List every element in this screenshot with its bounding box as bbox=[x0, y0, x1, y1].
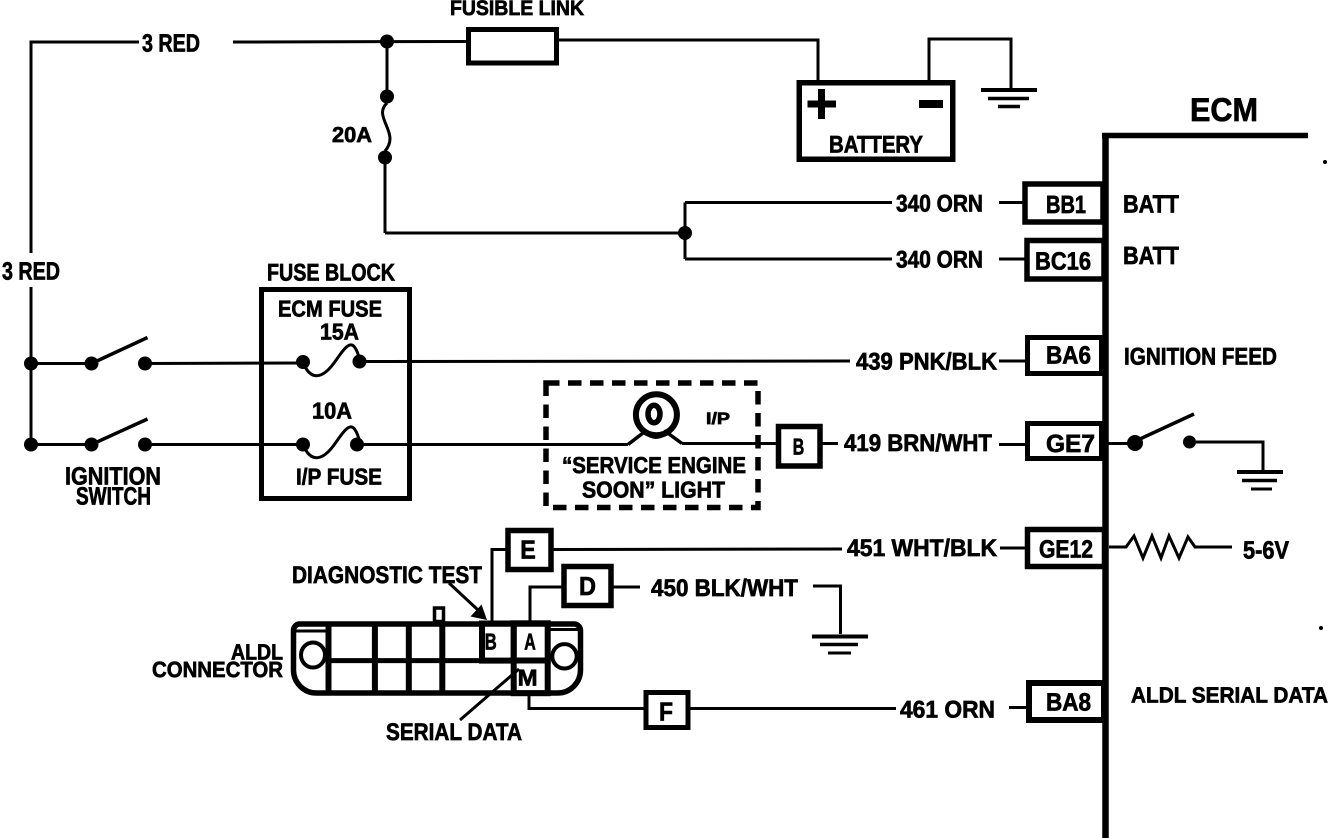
connector BB1 bbox=[1025, 184, 1103, 222]
svg-text:M: M bbox=[518, 664, 538, 690]
svg-text:SWITCH: SWITCH bbox=[76, 483, 151, 511]
svg-text:FUSE BLOCK: FUSE BLOCK bbox=[267, 260, 396, 287]
wire 461 ORN bbox=[688, 707, 896, 710]
svg-text:DIAGNOSTIC TEST: DIAGNOSTIC TEST bbox=[292, 562, 482, 589]
svg-text:340 ORN: 340 ORN bbox=[896, 191, 983, 218]
svg-text:ECM: ECM bbox=[1190, 91, 1258, 128]
svg-text:I/P: I/P bbox=[706, 410, 730, 428]
lamp (service engine soon indicator) bbox=[628, 394, 778, 444]
svg-text:BATTERY: BATTERY bbox=[829, 132, 923, 159]
pin F box bbox=[646, 693, 688, 728]
svg-text:3 RED: 3 RED bbox=[142, 30, 200, 58]
ALDL grid midline bbox=[329, 658, 483, 663]
connector GE12 bbox=[1028, 530, 1105, 567]
svg-text:3 RED: 3 RED bbox=[2, 258, 60, 286]
svg-text:BATT: BATT bbox=[1123, 242, 1179, 270]
ALDL right mount hole bbox=[552, 644, 576, 668]
wire E to ALDL pin B bbox=[492, 550, 508, 623]
ALDL top band right bbox=[549, 628, 578, 631]
svg-text:SOON” LIGHT: SOON” LIGHT bbox=[582, 477, 725, 503]
pin B (lamp connector) bbox=[779, 427, 821, 467]
wire junction riser bbox=[684, 203, 687, 260]
fuse block bbox=[262, 290, 410, 499]
connector BC16 bbox=[1027, 241, 1104, 280]
wire D to 450 bbox=[612, 586, 641, 589]
wire bbox=[999, 360, 1026, 363]
ALDL left mount hole bbox=[301, 643, 325, 668]
svg-text:BB1: BB1 bbox=[1046, 191, 1086, 219]
svg-text:SERIAL DATA: SERIAL DATA bbox=[386, 719, 522, 746]
node junction dot at fusible link tap bbox=[380, 35, 394, 49]
svg-text:BA6: BA6 bbox=[1046, 342, 1091, 370]
wire battery negative to ground bbox=[929, 39, 1011, 88]
svg-text:450 BLK/WHT: 450 BLK/WHT bbox=[651, 575, 798, 602]
fuse I/P 10A bbox=[296, 427, 364, 458]
ALDL top band left bbox=[296, 630, 327, 633]
node junction dot bbox=[678, 226, 692, 240]
fusible link bbox=[469, 30, 557, 64]
svg-text:15A: 15A bbox=[320, 319, 359, 345]
wire 20A fuse to BATT junction bbox=[385, 232, 685, 235]
wire bbox=[1000, 547, 1026, 550]
ground (450 BLK/WHT) bbox=[812, 637, 868, 654]
svg-text:439 PNK/BLK: 439 PNK/BLK bbox=[856, 349, 998, 376]
ground (battery) bbox=[981, 90, 1037, 107]
svg-text:I/P FUSE: I/P FUSE bbox=[296, 464, 382, 490]
svg-text:461 ORN: 461 ORN bbox=[900, 697, 995, 724]
wire bbox=[999, 443, 1026, 446]
wire 451 to GE12 bbox=[551, 548, 842, 552]
svg-text:IGNITION FEED: IGNITION FEED bbox=[1124, 344, 1277, 371]
service engine soon light dashed box bbox=[546, 383, 758, 508]
wire bbox=[822, 442, 838, 445]
svg-text:BA8: BA8 bbox=[1046, 689, 1091, 717]
wire from fusible link to battery bbox=[559, 40, 818, 80]
arrow diagnostic test to pin B bbox=[449, 583, 487, 620]
fuse ECM 15A bbox=[296, 345, 367, 376]
ALDL grid verticals bbox=[329, 627, 443, 691]
ignition switch pole 1 bbox=[24, 338, 303, 371]
svg-text:CONNECTOR: CONNECTOR bbox=[152, 657, 283, 682]
wire 340 ORN to BB1 bbox=[685, 201, 892, 204]
wire 439 to BA6 bbox=[360, 360, 851, 364]
ECM boundary top bbox=[1102, 133, 1308, 139]
svg-text:BATT: BATT bbox=[1123, 191, 1179, 219]
ECM boundary vertical bbox=[1102, 133, 1109, 838]
switch at GE7 bbox=[1104, 414, 1263, 470]
svg-text:GE12: GE12 bbox=[1039, 536, 1093, 564]
wire bbox=[999, 258, 1026, 261]
svg-text:20A: 20A bbox=[332, 123, 372, 147]
fuse 20A bbox=[378, 48, 394, 233]
wire bbox=[1009, 706, 1028, 709]
ALDL pin B cell bbox=[482, 624, 514, 661]
svg-text:B: B bbox=[485, 628, 497, 654]
pin D box bbox=[564, 567, 611, 606]
wire bbox=[233, 40, 466, 44]
svg-text:“SERVICE ENGINE: “SERVICE ENGINE bbox=[562, 452, 746, 478]
svg-text:10A: 10A bbox=[312, 398, 352, 424]
ground (GE7 switch) bbox=[1237, 472, 1283, 489]
wire: left 3 RED vertical bbox=[30, 287, 33, 445]
svg-text:340 ORN: 340 ORN bbox=[896, 247, 983, 274]
wire ALDL M to F bbox=[529, 692, 645, 709]
svg-text:E: E bbox=[520, 535, 536, 565]
wire 10A fuse to lamp bbox=[357, 443, 628, 446]
svg-text:451 WHT/BLK: 451 WHT/BLK bbox=[847, 535, 998, 562]
leader line serial data to pin M bbox=[460, 669, 519, 720]
svg-text:D: D bbox=[579, 571, 596, 601]
svg-text:F: F bbox=[659, 697, 673, 727]
connector GE7 bbox=[1028, 424, 1102, 459]
ALDL pin A cell bbox=[514, 623, 548, 660]
connector BA8 bbox=[1029, 683, 1104, 720]
wire 340 ORN to BC16 bbox=[685, 258, 892, 261]
ALDL connector body bbox=[293, 624, 580, 693]
resistor (5-6V pullup) bbox=[1109, 536, 1232, 558]
svg-text:419 BRN/WHT: 419 BRN/WHT bbox=[844, 430, 992, 457]
svg-text:GE7: GE7 bbox=[1046, 430, 1095, 458]
svg-text:A: A bbox=[524, 628, 536, 654]
wire bbox=[999, 201, 1026, 204]
connector BA6 bbox=[1028, 338, 1102, 374]
svg-text:5-6V: 5-6V bbox=[1243, 537, 1289, 565]
svg-text:BC16: BC16 bbox=[1035, 248, 1091, 276]
ALDL pin M cell bbox=[514, 661, 548, 694]
speck bbox=[1319, 626, 1323, 630]
wire 450 to ground bbox=[813, 586, 841, 634]
ignition switch pole 2 bbox=[24, 419, 303, 452]
speck bbox=[1323, 160, 1327, 164]
wire: top-left 3 RED feed bbox=[31, 42, 139, 253]
svg-text:FUSIBLE LINK: FUSIBLE LINK bbox=[450, 0, 584, 20]
pin E box bbox=[508, 531, 551, 570]
ALDL top tab bbox=[435, 608, 444, 622]
svg-text:ALDL SERIAL DATA: ALDL SERIAL DATA bbox=[1131, 683, 1328, 708]
svg-text:B: B bbox=[793, 434, 805, 460]
wire D to ALDL pin A bbox=[530, 587, 564, 622]
battery bbox=[799, 83, 953, 160]
